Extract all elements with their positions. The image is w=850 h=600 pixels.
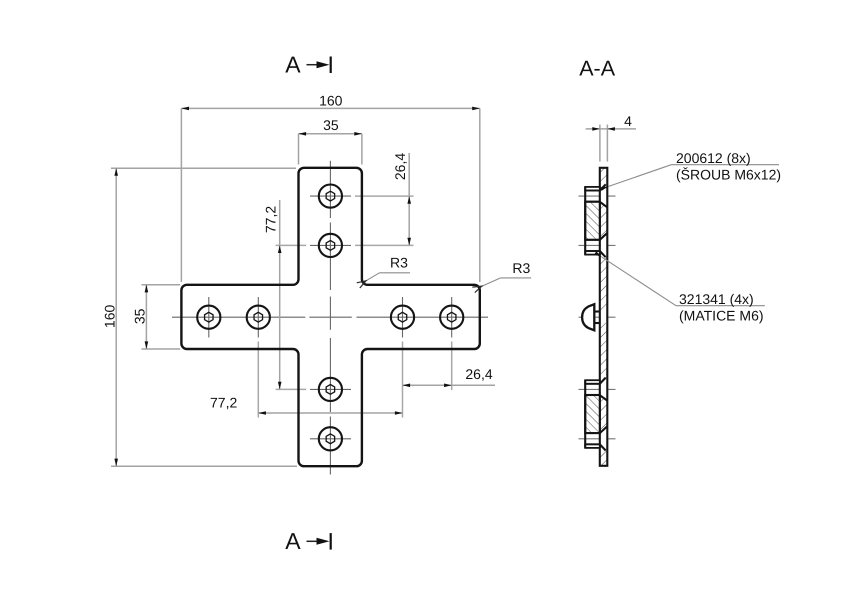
flare diagonal d4b bbox=[600, 444, 606, 450]
plate hole white band top zone hole1 bbox=[601, 184, 607, 207]
flare diagonal d3b bbox=[600, 427, 607, 434]
bottom zone screw and nut bbox=[585, 378, 607, 451]
svg-text:A: A bbox=[285, 51, 301, 77]
svg-text:A-A: A-A bbox=[579, 56, 616, 80]
svg-text:R3: R3 bbox=[390, 254, 408, 270]
crosshair hole top2 bbox=[310, 244, 351, 246]
crosshair hole right outer bbox=[451, 297, 453, 338]
leader 200612 bbox=[609, 150, 781, 186]
dimension 35 left bbox=[145, 285, 147, 349]
hole H4 left inner bbox=[247, 306, 270, 329]
svg-text:77,2: 77,2 bbox=[262, 206, 278, 233]
shank edge lines hole2 bbox=[585, 239, 600, 241]
dimension 160 left bbox=[115, 168, 117, 466]
hole H2 bbox=[319, 234, 342, 257]
hole H7 bottom1 bbox=[319, 378, 342, 401]
flare diagonal d2 bbox=[600, 202, 608, 207]
extension lines dim 160 left bbox=[111, 167, 296, 169]
svg-text:200612 (8x): 200612 (8x) bbox=[676, 150, 751, 166]
left edge bottom zone bbox=[584, 380, 586, 448]
svg-text:35: 35 bbox=[132, 308, 148, 324]
leader 321341 bbox=[602, 257, 765, 323]
crosshair hole bottom1 bbox=[310, 388, 351, 390]
svg-text:(MATICE M6): (MATICE M6) bbox=[679, 308, 764, 324]
left edge top zone bbox=[584, 187, 586, 255]
crosshair hole top1 bbox=[310, 195, 351, 197]
extension lines dim 35 left bbox=[142, 284, 181, 286]
crosshair hole left outer bbox=[208, 297, 210, 338]
section marker A top bbox=[285, 51, 332, 77]
flare diagonal d2b bbox=[600, 395, 608, 400]
flange top of bottom zone bbox=[585, 380, 600, 384]
leader R3 first bbox=[366, 254, 410, 280]
svg-text:4: 4 bbox=[624, 113, 632, 129]
svg-text:35: 35 bbox=[323, 117, 339, 133]
centerline stub hole4 bbox=[579, 438, 616, 440]
plate hole white band bottom zone hole3 bbox=[601, 378, 607, 401]
plate hole white band top zone hole2 bbox=[601, 233, 607, 256]
dimension 77,2 bottom horizontal bbox=[258, 412, 402, 414]
shank edge lines hole1 bbox=[585, 190, 600, 192]
nut block top zone bbox=[585, 202, 600, 240]
svg-text:26,4: 26,4 bbox=[465, 366, 492, 382]
plate section outline bbox=[600, 168, 608, 466]
centerline stub hole1 bbox=[579, 195, 616, 197]
svg-text:160: 160 bbox=[319, 92, 343, 108]
flange top of top zone bbox=[585, 187, 600, 191]
centerline vertical main bbox=[329, 161, 331, 475]
dimension 35 top bbox=[299, 133, 362, 135]
centerline stub hole3 bbox=[579, 388, 616, 390]
svg-text:26,4: 26,4 bbox=[392, 153, 408, 180]
dimension 26,4 bottom right horizontal bbox=[403, 384, 496, 386]
section marker A bottom bbox=[285, 528, 332, 554]
hole H5 right inner bbox=[391, 306, 414, 329]
shank edge lines hole4 bbox=[585, 432, 600, 434]
dimension 4 bbox=[586, 128, 636, 130]
flange bottom of bottom zone bbox=[585, 444, 600, 448]
centerline horizontal main bbox=[172, 316, 488, 318]
hole H3 left outer bbox=[197, 306, 220, 329]
hole H1 top bbox=[319, 185, 342, 208]
flange bottom of top zone bbox=[585, 251, 600, 255]
nut block bottom zone bbox=[585, 395, 600, 433]
top zone screw and nut bbox=[585, 184, 607, 257]
extension lines dim 35 top bbox=[298, 134, 300, 165]
plate hole white band bottom zone hole4 bbox=[601, 427, 607, 450]
hole H8 bottom2 bbox=[319, 427, 342, 450]
center dome screw head bbox=[582, 304, 600, 330]
dimension 26,4 top right vertical bbox=[408, 153, 410, 245]
crosshair hole right inner bbox=[402, 297, 404, 338]
flare diagonal d1b bbox=[600, 378, 606, 384]
hole H6 right outer bbox=[440, 306, 463, 329]
crosshair hole left inner bbox=[257, 297, 259, 338]
plate section hatched body bbox=[600, 168, 608, 466]
svg-text:77,2: 77,2 bbox=[210, 395, 237, 411]
shank edge lines hole3 bbox=[585, 383, 600, 385]
leader R3 second bbox=[482, 260, 531, 286]
extension lines dim 160 top bbox=[180, 108, 182, 282]
part outline cross plate bbox=[181, 168, 479, 466]
extension lines dim 4 bbox=[599, 125, 601, 162]
crosshair hole bottom2 bbox=[310, 438, 351, 440]
svg-text:321341 (4x): 321341 (4x) bbox=[679, 291, 754, 307]
svg-text:A: A bbox=[285, 528, 301, 554]
flare diagonal d1 bbox=[600, 184, 606, 190]
plate hole white band center bbox=[601, 312, 607, 323]
dimension 160 top bbox=[181, 107, 479, 109]
centerline stub center bbox=[579, 316, 616, 318]
svg-text:R3: R3 bbox=[512, 260, 530, 276]
dimension 77,2 left vertical bbox=[279, 200, 281, 389]
flare diagonal d3 bbox=[600, 233, 607, 240]
svg-text:160: 160 bbox=[101, 305, 117, 329]
svg-text:(ŠROUB M6x12): (ŠROUB M6x12) bbox=[676, 167, 781, 183]
flare diagonal d4 bbox=[600, 251, 606, 257]
centerline stub hole2 bbox=[579, 244, 616, 246]
